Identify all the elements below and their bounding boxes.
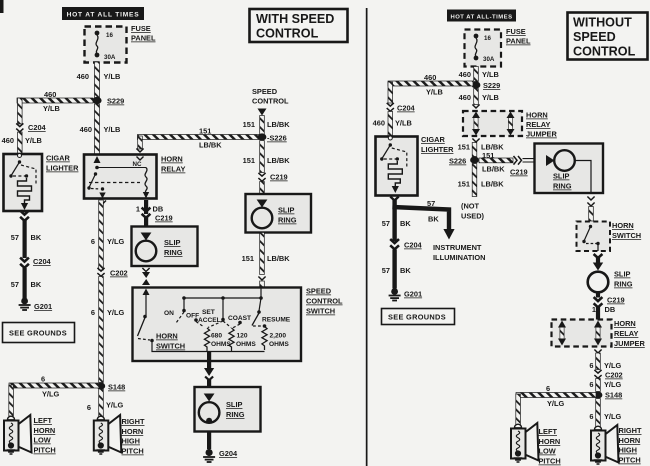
wire 57 BK C204 to G201 <box>11 268 42 299</box>
label CIGAR LIGHTER (left) <box>46 154 79 173</box>
svg-text:6: 6 <box>91 308 95 317</box>
svg-text:CONTROL: CONTROL <box>256 27 319 41</box>
svg-text:680: 680 <box>211 333 222 340</box>
wire 460 Y/LB C204 to cigar lighter <box>2 132 42 154</box>
svg-text:151: 151 <box>458 143 470 152</box>
svg-text:WITH SPEED: WITH SPEED <box>256 12 334 26</box>
svg-text:LB/BK: LB/BK <box>481 180 504 189</box>
slip ring E (bare circle) <box>588 270 633 293</box>
wire 57 BK C204 to G201 (right) <box>382 250 412 289</box>
wire 460 Y/LB fuse to S229 <box>77 62 121 100</box>
svg-text:DB: DB <box>153 205 164 214</box>
svg-text:460: 460 <box>424 73 436 82</box>
wire 460 Y/LB S229 to horn relay jumper <box>459 89 499 109</box>
svg-text:FUSE: FUSE <box>131 24 151 33</box>
svg-text:Y/LG: Y/LG <box>42 390 59 399</box>
wire 151 LB/BK speed control to S226 <box>243 116 291 135</box>
svg-text:RELAY: RELAY <box>526 120 550 129</box>
svg-text:RING: RING <box>226 410 245 419</box>
svg-text:CONTROL: CONTROL <box>573 45 636 59</box>
svg-text:LOW: LOW <box>34 436 51 445</box>
wire 6 Y/LG C202 to S148 (right) <box>589 379 621 392</box>
label HORN SWITCH (right) <box>612 221 641 240</box>
wire 6 Y/LG S148 to left horn (right diagram) <box>516 384 596 426</box>
svg-text:HORN: HORN <box>34 426 56 435</box>
svg-text:C204: C204 <box>397 104 416 113</box>
left horn low pitch (right diagram) <box>511 423 561 466</box>
wire 460 Y/LB fuse to S229 (right) <box>459 67 499 82</box>
svg-text:6: 6 <box>589 412 593 421</box>
svg-text:RING: RING <box>614 280 633 289</box>
svg-text:C219: C219 <box>607 296 625 305</box>
svg-text:RIGHT: RIGHT <box>122 417 145 426</box>
svg-text:JUMPER: JUMPER <box>526 130 557 139</box>
node S148 (right) <box>594 391 623 400</box>
svg-text:16: 16 <box>484 35 491 42</box>
svg-text:CIGAR: CIGAR <box>421 135 445 144</box>
connector C204 (left) <box>16 123 46 132</box>
svg-text:SET: SET <box>202 309 215 316</box>
svg-text:HOT AT ALL-TIMES: HOT AT ALL-TIMES <box>450 14 512 20</box>
svg-text:S226: S226 <box>449 157 466 166</box>
scan edge mark <box>0 0 4 13</box>
wire 6 Y/LG S148 to right horn (right diagram) <box>589 399 621 429</box>
svg-text:Y/LB: Y/LB <box>395 119 412 128</box>
svg-text:460: 460 <box>373 119 385 128</box>
svg-text:FUSE: FUSE <box>506 27 526 36</box>
svg-text:57: 57 <box>11 280 19 289</box>
label CIGAR LIGHTER (right) <box>421 135 454 154</box>
svg-text:SEE GROUNDS: SEE GROUNDS <box>388 313 446 322</box>
svg-text:6: 6 <box>91 237 95 246</box>
wire slip ring D to horn switch <box>587 197 594 222</box>
label INSTRUMENT ILLUMINATION <box>433 243 485 262</box>
wire speed control switch to slip ring C <box>204 361 214 387</box>
svg-text:BK: BK <box>31 233 42 242</box>
svg-text:Y/LB: Y/LB <box>426 88 443 97</box>
svg-text:SEE GROUNDS: SEE GROUNDS <box>9 329 67 338</box>
wire 6 Y/LG jumper to C202 (right) <box>589 350 621 371</box>
svg-text:PITCH: PITCH <box>34 446 56 455</box>
svg-text:151: 151 <box>199 127 211 136</box>
wire 57 BK cigar to C204 <box>11 219 42 258</box>
svg-text:6: 6 <box>87 403 91 412</box>
fuse panel (left) <box>85 27 127 63</box>
svg-text:6: 6 <box>41 375 45 384</box>
svg-text:57: 57 <box>382 219 390 228</box>
connector C204 (57 BK) <box>20 257 51 268</box>
svg-text:SWITCH: SWITCH <box>612 231 641 240</box>
svg-text:Y/LB: Y/LB <box>104 72 121 81</box>
svg-text:PITCH: PITCH <box>539 457 561 466</box>
svg-text:OHMS: OHMS <box>211 341 231 348</box>
svg-text:Y/LB: Y/LB <box>482 93 499 102</box>
svg-text:LIGHTER: LIGHTER <box>421 145 454 154</box>
svg-text:S148: S148 <box>108 383 125 392</box>
svg-text:120: 120 <box>237 333 248 340</box>
svg-text:CONTROL: CONTROL <box>306 297 343 306</box>
title box WITH SPEED CONTROL <box>250 9 348 42</box>
right horn high pitch (left diagram) <box>94 415 145 456</box>
svg-text:PITCH: PITCH <box>122 447 144 456</box>
svg-text:Y/LG: Y/LG <box>107 308 124 317</box>
slip ring D (right diagram upper) <box>535 144 604 194</box>
svg-text:SLIP: SLIP <box>278 206 294 215</box>
svg-text:DB: DB <box>605 305 616 314</box>
svg-text:57: 57 <box>427 199 435 208</box>
wire 6 Y/LG S148 to right horn <box>87 389 124 417</box>
svg-text:30A: 30A <box>483 56 495 63</box>
svg-text:C204: C204 <box>404 241 423 250</box>
svg-text:30A: 30A <box>104 54 116 61</box>
svg-text:C219: C219 <box>270 173 288 182</box>
svg-text:Y/LB: Y/LB <box>104 125 121 134</box>
svg-text:USED): USED) <box>461 212 485 221</box>
svg-text:RING: RING <box>278 216 297 225</box>
svg-text:SWITCH: SWITCH <box>306 307 335 316</box>
svg-text:-S226: -S226 <box>267 134 287 143</box>
cigar lighter (right) <box>376 136 418 196</box>
svg-text:HIGH: HIGH <box>619 446 637 455</box>
svg-text:Y/LG: Y/LG <box>547 399 564 408</box>
svg-text:PITCH: PITCH <box>619 456 641 465</box>
svg-text:6: 6 <box>589 380 593 389</box>
svg-text:G201: G201 <box>404 290 422 299</box>
svg-text:Y/LG: Y/LG <box>604 412 621 421</box>
wire 460 Y/LB S229 to horn relay <box>80 104 121 154</box>
node S229 (right) <box>472 81 501 90</box>
svg-text:HORN: HORN <box>161 155 183 164</box>
horn relay U1 <box>84 155 157 199</box>
wire 151 LB/BK S226 to horn relay (horizontal) <box>136 127 260 153</box>
svg-text:HORN: HORN <box>539 437 561 446</box>
cigar lighter (left) <box>4 154 43 212</box>
svg-text:OHMS: OHMS <box>269 341 289 348</box>
node S226 (right) <box>449 156 479 165</box>
svg-text:SPEED: SPEED <box>306 287 332 296</box>
title box WITHOUT SPEED CONTROL <box>568 13 648 60</box>
svg-text:RING: RING <box>164 248 183 257</box>
label HORN RELAY JUMPER (upper) <box>526 111 557 139</box>
wire DB C219 to slip ring <box>144 217 148 227</box>
connector C204 (57 BK right) <box>390 239 422 249</box>
connector X below slip ring A <box>142 268 150 285</box>
svg-text:SLIP: SLIP <box>614 270 630 279</box>
svg-text:S148: S148 <box>605 391 622 400</box>
svg-text:6: 6 <box>589 361 593 370</box>
svg-text:460: 460 <box>459 93 471 102</box>
svg-text:LEFT: LEFT <box>539 427 558 436</box>
wire 460 Y/LB S229 to C204 (horizontal) <box>17 90 93 124</box>
svg-text:HORN: HORN <box>612 221 634 230</box>
horn switch (right) <box>577 222 611 252</box>
svg-text:CIGAR: CIGAR <box>46 154 70 163</box>
wire 151 LB/BK jumper to S226 <box>458 139 505 157</box>
svg-text:S229: S229 <box>107 97 124 106</box>
svg-text:S229: S229 <box>483 81 500 90</box>
power label HOT AT ALL-TIMES (right) <box>447 10 516 22</box>
svg-text:INSTRUMENT: INSTRUMENT <box>433 243 482 252</box>
wire 57 BK cigar lighter down (right) <box>382 197 412 242</box>
svg-text:LB/BK: LB/BK <box>482 165 505 174</box>
svg-text:HORN: HORN <box>619 436 641 445</box>
wire C219 to slip ring B <box>260 182 265 195</box>
svg-text:SLIP: SLIP <box>226 400 242 409</box>
ground G204 <box>203 449 238 462</box>
svg-text:HORN: HORN <box>526 111 548 120</box>
svg-text:HOT AT ALL TIMES: HOT AT ALL TIMES <box>67 12 140 19</box>
svg-text:NC: NC <box>133 161 142 168</box>
svg-text:RESUME: RESUME <box>262 317 291 324</box>
connector C219 (speed control column) <box>258 173 287 182</box>
svg-text:16: 16 <box>106 32 113 39</box>
ground G201 (right) <box>389 288 422 300</box>
ground G201 (left) <box>19 298 52 311</box>
svg-text:RIGHT: RIGHT <box>619 426 642 435</box>
slip ring B (speed control column) <box>246 194 312 233</box>
svg-text:CONTROL: CONTROL <box>252 97 289 106</box>
wire 6 Y/LG horn relay to C202 <box>91 200 125 270</box>
svg-text:WITHOUT: WITHOUT <box>573 16 632 30</box>
wire 460 Y/LB S229 to C204 (right horizontal) <box>388 73 473 103</box>
svg-text:151: 151 <box>458 180 470 189</box>
svg-text:2,200: 2,200 <box>270 333 287 340</box>
svg-text:ON: ON <box>164 310 174 317</box>
label SPEED CONTROL (feed) <box>252 87 289 116</box>
svg-text:1: 1 <box>592 305 596 314</box>
svg-text:460: 460 <box>459 70 471 79</box>
svg-text:LB/BK: LB/BK <box>267 156 290 165</box>
wire 6 Y/LG C202 to S148 <box>91 277 125 383</box>
svg-text:C202: C202 <box>110 269 128 278</box>
wire 6 Y/LG S148 to left horn <box>9 375 99 417</box>
wire 151 LB/BK slip ring B to speed control switch <box>242 233 291 288</box>
svg-text:PANEL: PANEL <box>131 34 156 43</box>
svg-text:LB/BK: LB/BK <box>199 141 222 150</box>
svg-text:460: 460 <box>44 90 56 99</box>
svg-text:6: 6 <box>546 384 550 393</box>
label (NOT USED) <box>461 202 485 221</box>
svg-text:Y/LB: Y/LB <box>482 70 499 79</box>
svg-text:Y/LB: Y/LB <box>43 104 60 113</box>
svg-text:460: 460 <box>80 125 92 134</box>
svg-text:SLIP: SLIP <box>553 172 569 181</box>
wire 57 BK branch to instrument illumination <box>392 199 454 240</box>
svg-text:Y/LG: Y/LG <box>604 380 621 389</box>
svg-text:(NOT: (NOT <box>461 202 480 211</box>
speed control switch SW1 <box>133 288 302 362</box>
node S226 (left) <box>258 133 287 142</box>
svg-text:Y/LG: Y/LG <box>106 401 123 410</box>
svg-text:C219: C219 <box>155 214 173 223</box>
node S229 <box>92 97 124 106</box>
wire slip ring C to G204 <box>207 432 211 450</box>
svg-text:OHMS: OHMS <box>236 341 256 348</box>
svg-text:LIGHTER: LIGHTER <box>46 164 79 173</box>
svg-text:HORN: HORN <box>614 319 636 328</box>
svg-text:151: 151 <box>242 254 254 263</box>
label HORN RELAY <box>161 155 185 174</box>
power label HOT AT ALL TIMES <box>62 7 144 20</box>
label SPEED CONTROL SWITCH <box>306 287 343 316</box>
svg-text:G201: G201 <box>34 302 52 311</box>
SEE GROUNDS box (left) <box>3 323 75 343</box>
svg-text:G204: G204 <box>219 449 238 458</box>
connector horn switch to slip ring E <box>593 254 603 271</box>
svg-text:C219: C219 <box>510 168 528 177</box>
svg-text:460: 460 <box>77 72 89 81</box>
label FUSE PANEL <box>131 24 156 43</box>
connector C204 (right) <box>387 103 416 113</box>
wire 1 DB horn relay to C219 <box>136 200 163 214</box>
connector C219 (left) <box>142 208 173 223</box>
svg-text:Y/LG: Y/LG <box>604 361 621 370</box>
horn relay jumper (upper) <box>463 111 522 136</box>
svg-text:HORN: HORN <box>122 427 144 436</box>
svg-text:HIGH: HIGH <box>122 437 140 446</box>
connector below cigar lighter <box>20 211 29 221</box>
svg-text:C202: C202 <box>605 371 623 380</box>
left horn low pitch (left diagram) <box>4 415 56 455</box>
svg-text:BK: BK <box>31 280 42 289</box>
svg-text:SWITCH: SWITCH <box>156 342 185 351</box>
slip ring C (bottom) <box>195 387 261 432</box>
svg-text:151: 151 <box>243 120 255 129</box>
svg-text:Y/LB: Y/LB <box>25 136 42 145</box>
svg-text:460: 460 <box>2 136 14 145</box>
horn relay jumper (lower) <box>552 320 612 347</box>
svg-text:BK: BK <box>428 215 439 224</box>
svg-text:BK: BK <box>400 266 411 275</box>
svg-text:ILLUMINATION: ILLUMINATION <box>433 253 485 262</box>
wire 151 LB/BK S226 to C219 slip ring (horizontal) <box>479 151 534 177</box>
svg-text:HORN: HORN <box>156 332 178 341</box>
svg-text:RELAY: RELAY <box>614 329 638 338</box>
svg-text:PANEL: PANEL <box>506 37 531 46</box>
connector C202 (left) <box>97 268 127 278</box>
connector below horn relay pin <box>99 201 106 205</box>
wire 151 LB/BK S226 down (not used) <box>458 164 505 197</box>
label HORN RELAY JUMPER (lower) <box>614 319 645 348</box>
node S148 (left) <box>96 382 125 391</box>
svg-text:1: 1 <box>136 205 140 214</box>
svg-text:Y/LG: Y/LG <box>107 237 124 246</box>
wire 1 DB slip ring E to C219 <box>592 293 625 320</box>
svg-text:BK: BK <box>400 219 411 228</box>
svg-text:LB/BK: LB/BK <box>267 120 290 129</box>
wire 151 LB/BK S226 to C219 <box>243 141 291 173</box>
svg-text:JUMPER: JUMPER <box>614 339 645 348</box>
svg-text:SPEED: SPEED <box>252 87 278 96</box>
svg-text:LB/BK: LB/BK <box>267 254 290 263</box>
svg-text:RELAY: RELAY <box>161 165 185 174</box>
svg-text:57: 57 <box>11 233 19 242</box>
svg-text:C204: C204 <box>33 257 52 266</box>
label FUSE PANEL (right) <box>506 27 531 46</box>
svg-text:C204: C204 <box>28 123 47 132</box>
svg-text:LOW: LOW <box>539 447 556 456</box>
slip ring A (with speed control, upper) <box>132 227 198 267</box>
svg-text:RING: RING <box>553 182 572 191</box>
connector C202 (right) <box>594 370 622 380</box>
svg-text:151: 151 <box>243 156 255 165</box>
svg-text:SPEED: SPEED <box>573 30 616 44</box>
wire 460 Y/LB C204 to cigar lighter (right) <box>373 112 412 137</box>
fuse panel (right) <box>465 30 502 67</box>
right horn high pitch (right diagram) <box>591 425 642 465</box>
svg-text:57: 57 <box>382 266 390 275</box>
svg-text:LEFT: LEFT <box>34 416 53 425</box>
divider line <box>366 8 368 466</box>
SEE GROUNDS box (right) <box>382 309 455 325</box>
svg-text:SLIP: SLIP <box>164 238 180 247</box>
